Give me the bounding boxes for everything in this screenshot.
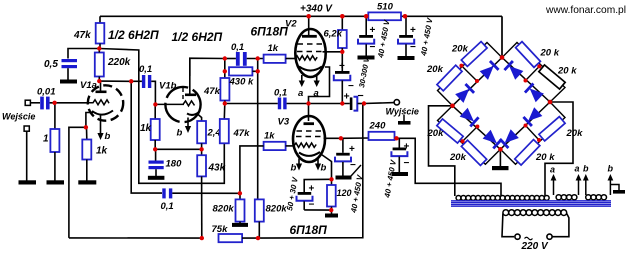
ground under 1k — [78, 180, 96, 184]
wire 0.1 to 1k — [247, 58, 264, 60]
wire input to 0.01 — [30, 102, 40, 104]
resistor 75k — [212, 224, 243, 242]
diode D1 — [480, 61, 499, 80]
resistor 20k LR-b — [515, 140, 540, 166]
svg-text:b: b — [177, 128, 183, 139]
resistor 20k LR-a — [539, 117, 565, 141]
node outer SE — [537, 138, 541, 142]
svg-text:820k: 820k — [266, 204, 288, 215]
capacitor 180 bypass — [149, 149, 183, 176]
ground under 0,5 — [60, 80, 77, 84]
wire cathode node to feedback line — [69, 127, 86, 238]
tube V3 grid zigzag — [294, 143, 316, 147]
wire 240 to transformer tap — [397, 138, 502, 196]
diode D4 — [525, 83, 544, 102]
wire to output terminal — [364, 102, 394, 105]
resistor 20k UL-b — [437, 65, 462, 91]
capacitor 40+450V left mid — [335, 138, 365, 214]
ground bridge bottom — [492, 166, 509, 170]
wire grid node into tube — [155, 103, 184, 105]
svg-text:www.fonar.com.pl: www.fonar.com.pl — [545, 4, 626, 16]
tube V2 anode to rail — [302, 16, 317, 36]
svg-text:b: b — [105, 131, 111, 142]
node rail 6.2k — [340, 14, 345, 19]
svg-text:−: − — [358, 90, 364, 102]
tube V2 grid3 dash extended to screen node — [297, 51, 323, 53]
svg-text:47k: 47k — [73, 30, 91, 41]
resistor 820k left — [213, 193, 245, 223]
capacitor 40+450V right mid — [382, 138, 409, 199]
resistor 1k V1b grid leak — [140, 104, 160, 149]
svg-text:0,1: 0,1 — [139, 64, 152, 75]
tube V1b grid zigzag — [183, 101, 195, 106]
wire bridge bottom to ground — [499, 149, 501, 166]
svg-text:−: − — [370, 42, 376, 53]
transformer filament winding a — [556, 195, 577, 200]
svg-text:220k: 220k — [107, 57, 131, 68]
resistor 430k — [229, 67, 258, 87]
ground under 120 — [325, 214, 338, 218]
svg-text:6,2k: 6,2k — [324, 29, 343, 40]
svg-text:20 k: 20 k — [535, 152, 555, 163]
svg-text:0,01: 0,01 — [37, 87, 56, 98]
tube V1a heater lead with arrow b — [97, 116, 110, 143]
svg-text:+: + — [349, 144, 355, 155]
ground under cap — [336, 176, 352, 180]
tube V1b grid dash — [182, 88, 184, 101]
svg-text:a: a — [575, 164, 580, 174]
wire mid link SW — [463, 127, 478, 142]
terminal 220V left — [515, 234, 520, 239]
node 47k mid — [223, 101, 227, 105]
resistor 47k upper — [203, 71, 229, 103]
wire V1b plate up and right — [190, 58, 225, 76]
capacitor 0,1 to V3 grid top — [274, 88, 287, 110]
wire long vertical 430k node to 820k — [257, 59, 259, 200]
node rail cap1 — [364, 14, 369, 19]
wire bridge outer LL — [438, 106, 501, 165]
svg-text:120: 120 — [337, 188, 352, 198]
node bridge mid LR — [524, 124, 528, 128]
wire bottom to feedback riser — [242, 104, 363, 239]
wire long vertical from plate node down to feedback cap line — [131, 81, 162, 193]
wire 0.01 to grid — [50, 102, 88, 104]
node screen V2 — [340, 50, 344, 54]
wire plate junction to 0.1 cap — [99, 80, 131, 82]
tube V3 grid3 dash — [296, 136, 322, 138]
node 430k right — [256, 69, 260, 73]
terminal input Wejscie — [25, 100, 30, 105]
terminal input lower — [24, 126, 29, 181]
svg-text:1/2 6Н2П: 1/2 6Н2П — [108, 28, 159, 42]
terminal 220V right — [547, 234, 552, 239]
resistor 20k UR-b — [539, 65, 565, 89]
node 240 right — [394, 136, 398, 140]
wire V2 cathode to output node — [309, 67, 330, 104]
svg-text:20k: 20k — [426, 64, 444, 75]
node bridge mid UL — [475, 79, 479, 83]
wire 2.4k to 43k — [201, 143, 203, 155]
resistor 240 — [341, 121, 397, 141]
resistor 47k lower — [220, 104, 250, 144]
svg-text:b: b — [583, 164, 589, 174]
node outer NE — [537, 64, 541, 68]
svg-text:510: 510 — [377, 2, 394, 13]
ground under 820k left — [232, 223, 248, 227]
wire primary left lead — [502, 214, 514, 237]
terminal a right with arrow — [575, 164, 582, 196]
svg-text:47k: 47k — [233, 128, 251, 139]
svg-text:20k: 20k — [451, 44, 469, 55]
svg-text:V3: V3 — [278, 117, 290, 128]
node feedback cap right — [238, 191, 242, 195]
svg-text:b: b — [608, 164, 614, 174]
tube V1a cathode lead — [86, 113, 93, 128]
capacitor 0,1 feedback — [161, 188, 174, 212]
svg-text:220 V: 220 V — [521, 241, 549, 252]
tube V2 cathode arc — [299, 67, 322, 71]
tube V3 cathode arc — [299, 152, 320, 156]
ground under resistor 1 — [47, 180, 65, 184]
node 1k bottom — [153, 147, 157, 151]
tube V1a anode — [96, 81, 107, 92]
resistor 43k — [197, 155, 225, 238]
node bridge top — [500, 55, 505, 60]
tube V1b cathode — [187, 112, 199, 115]
svg-text:a: a — [298, 88, 303, 99]
node 43k bottom feedback — [200, 236, 204, 240]
wire cathode bus — [155, 148, 201, 150]
svg-text:20 k: 20 k — [557, 66, 577, 77]
wire 1k left to 820k node — [240, 146, 264, 193]
terminal Wyjscie — [394, 100, 399, 105]
wire cathode network box — [304, 179, 331, 192]
wire node down to 430k — [224, 59, 226, 72]
node 30-300 bottom — [340, 101, 344, 105]
svg-text:−: − — [350, 160, 356, 171]
diode D7 — [523, 107, 542, 126]
svg-text:6П18П: 6П18П — [290, 223, 328, 237]
node cathode network bottom — [329, 208, 333, 212]
diode D8 — [500, 129, 519, 148]
wire mid link NW — [461, 66, 477, 81]
resistor 1 grid leak — [43, 129, 59, 181]
svg-text:20k: 20k — [566, 128, 584, 139]
wire feedback cap to node — [172, 192, 240, 194]
node V3 cathode — [329, 177, 333, 181]
svg-text:+: + — [404, 142, 410, 153]
node bridge bottom — [498, 147, 503, 152]
node outer NW — [459, 64, 463, 68]
svg-text:+340 V: +340 V — [300, 4, 333, 15]
svg-text:a: a — [550, 165, 555, 175]
svg-text:43k: 43k — [208, 163, 226, 174]
wire top B+ rail — [100, 15, 502, 17]
capacitor 0,1 coupling to V2 — [231, 42, 247, 66]
label 220V — [521, 237, 549, 252]
resistor 20k UL-a — [461, 42, 487, 67]
resistor 6,2k — [324, 16, 347, 52]
transformer core — [451, 201, 611, 206]
svg-text:+: + — [309, 184, 315, 195]
ground under 180 — [148, 176, 165, 180]
node plate V1b — [223, 56, 227, 60]
tube V1b cathode lead to 2.4k — [198, 114, 202, 121]
node rail cap2 — [403, 14, 408, 19]
tube V2 grid2 dash — [298, 43, 324, 45]
resistor 220k — [95, 49, 131, 82]
svg-text:1: 1 — [43, 134, 49, 145]
svg-text:1k: 1k — [268, 43, 279, 54]
resistor 120 — [327, 179, 352, 213]
node outer SW — [461, 139, 465, 143]
tube V3 grid2 dash — [297, 130, 323, 132]
tube V3 anode — [304, 122, 315, 125]
node cathode V1a — [84, 125, 88, 129]
capacitor 40+450V top first — [358, 16, 392, 59]
tube V2 envelope — [295, 29, 325, 77]
resistor 2,4k — [197, 121, 227, 143]
tube V1a cathode — [92, 111, 113, 115]
wire plate node to 0.1 — [225, 58, 236, 60]
node 47k/220k junction — [97, 46, 101, 50]
wire to 0.5 cap — [68, 49, 99, 59]
ground under right cap — [392, 172, 409, 176]
tube V1a grid zigzag — [88, 100, 109, 105]
svg-text:6П18П: 6П18П — [251, 25, 289, 39]
tube V2 heater arrows a a — [298, 75, 320, 99]
capacitor output electrolytic — [344, 90, 365, 111]
resistor 1k cathode V1a — [82, 127, 107, 180]
node output feedback — [362, 101, 366, 105]
node 2.4k bottom — [199, 147, 203, 151]
transformer primary winding — [503, 210, 567, 216]
diode D3 — [504, 61, 523, 80]
transformer filament winding b — [586, 195, 607, 200]
capacitor 30-300V screen bypass — [334, 52, 372, 104]
resistor 1k grid V2 — [264, 43, 295, 63]
node before 0.1 — [129, 79, 133, 83]
diode D6 — [483, 130, 502, 149]
svg-text:430 k: 430 k — [229, 77, 254, 88]
svg-text:−: − — [410, 42, 416, 53]
resistor 1k grid V3 — [264, 131, 294, 151]
node 820k bottom — [256, 236, 260, 240]
wire bridge outer UR — [502, 43, 565, 103]
svg-text:1k: 1k — [96, 146, 108, 157]
node bridge mid UR — [524, 79, 528, 83]
diode D2 — [455, 84, 474, 103]
resistor 20k LL-a — [437, 119, 463, 143]
tube V1b envelope — [165, 87, 200, 122]
svg-text:180: 180 — [166, 159, 183, 170]
resistor 47k anode V1a — [73, 16, 104, 48]
ground under lower terminal — [19, 180, 37, 184]
wire rail to bridge top — [501, 16, 503, 57]
tube V3 heater arrows b b — [291, 159, 327, 174]
node bridge left — [450, 104, 455, 109]
capacitor 40+450V top second — [398, 16, 435, 57]
wire V2 screen to 6.2k node — [323, 51, 343, 53]
ground under Wyjscie — [398, 115, 411, 125]
svg-text:20k: 20k — [449, 152, 467, 163]
terminal b right with arrow and ground — [608, 164, 626, 196]
wire node to V3 top — [308, 104, 310, 122]
wire bridge left to transformer — [429, 106, 455, 196]
svg-text:+: + — [344, 91, 350, 103]
wire feedback bottom long — [69, 237, 202, 239]
svg-text:Wyjście: Wyjście — [386, 107, 419, 117]
svg-text:47k: 47k — [203, 86, 221, 97]
wire divider from 47k junction down and across — [99, 49, 224, 184]
wire mid link SE — [526, 126, 540, 141]
wire V3 screen to 240 line — [324, 137, 341, 139]
wire bridge outer LR — [500, 102, 565, 164]
svg-text:0,1: 0,1 — [274, 88, 287, 99]
capacitor 0,01 — [37, 87, 56, 110]
svg-text:1k: 1k — [140, 123, 152, 134]
svg-text:+: + — [339, 61, 345, 72]
tube V1b heater arrow b — [177, 118, 192, 139]
wire bridge right to transformer — [545, 102, 573, 196]
svg-text:V2: V2 — [285, 19, 297, 30]
svg-text:+: + — [410, 25, 416, 36]
resistor 20k LL-b — [461, 140, 486, 165]
terminal b left with arrow — [583, 164, 589, 196]
svg-text:240: 240 — [369, 121, 387, 132]
wire bridge inner diamond — [453, 58, 551, 150]
node 240 left — [339, 136, 343, 140]
capacitor 0,1 coupling V1a-V1b — [139, 64, 152, 88]
svg-text:b: b — [321, 163, 327, 174]
capacitor 50-30V cathode bypass — [285, 176, 314, 211]
svg-text:0,5: 0,5 — [44, 59, 58, 70]
svg-text:75k: 75k — [212, 224, 229, 235]
ground under cap1 — [358, 56, 375, 60]
svg-text:a: a — [314, 88, 319, 99]
resistor 20k UR-a — [516, 42, 541, 68]
wire mid node right — [225, 103, 278, 105]
svg-text:1k: 1k — [264, 131, 275, 142]
svg-text:820k: 820k — [213, 204, 235, 215]
svg-text:b: b — [291, 163, 297, 174]
node 0.1/430k right — [256, 56, 260, 60]
svg-text:−: − — [404, 158, 410, 169]
resistor 510 — [368, 2, 401, 21]
node V2 cathode / V3 anode — [306, 101, 310, 105]
transformer HV winding — [456, 195, 549, 200]
ground under cap2 — [398, 56, 415, 60]
wire primary right lead — [553, 214, 569, 237]
wire bridge outer UL — [438, 43, 503, 106]
node bridge mid LL — [475, 125, 479, 129]
resistor 820k right — [255, 199, 288, 238]
tube V1a envelope — [88, 85, 123, 120]
node 430k left — [223, 69, 227, 73]
svg-text:+: + — [370, 25, 376, 36]
wire cathode box bottom — [304, 209, 331, 211]
node rail anode V2 — [306, 14, 311, 19]
svg-text:−: − — [309, 200, 315, 211]
wire mid link NE — [526, 66, 540, 80]
svg-text:Wejście: Wejście — [2, 112, 35, 122]
wire node down to resistor 1 — [54, 103, 56, 129]
tube V3 envelope — [293, 116, 325, 162]
svg-text:0,1: 0,1 — [161, 201, 174, 212]
svg-text:1/2 6Н2П: 1/2 6Н2П — [172, 30, 223, 44]
capacitor 0,5 — [44, 59, 77, 80]
wire 0.1 to V1b grid — [131, 80, 142, 82]
tube V1b anode — [185, 58, 196, 95]
svg-text:0,1: 0,1 — [231, 42, 244, 53]
diode D5 — [460, 108, 479, 127]
tube V2 grid zigzag — [295, 56, 317, 60]
wire 0.1 to node — [287, 103, 309, 105]
node 220k/plate junction — [97, 79, 101, 83]
wire output line — [309, 103, 350, 105]
node V1b grid — [153, 102, 157, 106]
node input grid — [52, 101, 56, 105]
terminal a left with arrow — [550, 165, 556, 196]
svg-text:20 k: 20 k — [540, 48, 560, 59]
wire V3 cathode down — [322, 155, 332, 180]
node bridge right — [548, 100, 553, 105]
